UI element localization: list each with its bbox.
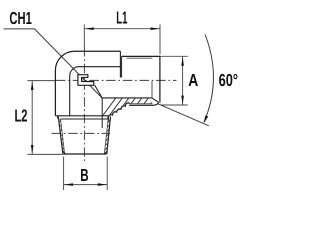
svg-text:B: B (80, 165, 88, 185)
svg-text:L2: L2 (15, 106, 28, 126)
svg-text:60°: 60° (219, 70, 238, 90)
svg-text:L1: L1 (116, 8, 127, 28)
svg-text:A: A (188, 70, 198, 90)
svg-text:CH1: CH1 (9, 8, 32, 28)
